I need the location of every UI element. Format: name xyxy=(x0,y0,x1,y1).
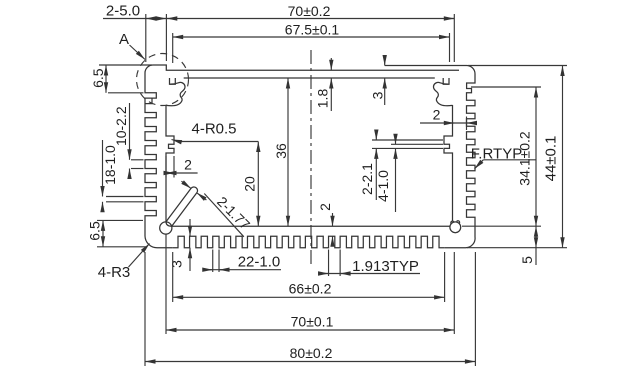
detail circle A (dashed) xyxy=(137,54,189,106)
screw boss bottom-left with diagonal rib xyxy=(160,222,172,234)
dim 2-2.1 xyxy=(375,132,377,140)
dim 70±0.1 xyxy=(166,329,454,331)
dim 36 xyxy=(287,78,289,226)
svg-text:67.5±0.1: 67.5±0.1 xyxy=(285,22,340,38)
dim 5 xyxy=(535,226,537,248)
centerline (dash-dot) xyxy=(310,50,312,268)
svg-text:3: 3 xyxy=(169,260,185,268)
svg-text:2: 2 xyxy=(184,157,192,173)
channel lip top-left xyxy=(170,78,176,84)
svg-text:A: A xyxy=(119,31,129,48)
svg-text:1.8: 1.8 xyxy=(315,89,331,109)
dim 6.5 top-left xyxy=(105,65,107,93)
svg-text:5: 5 xyxy=(519,256,535,264)
svg-text:70±0.1: 70±0.1 xyxy=(291,314,334,330)
dim 66±0.2 xyxy=(173,296,445,298)
dim 18-1.0 xyxy=(102,140,104,197)
screw boss top-right xyxy=(433,82,452,105)
dim 10-2.2 xyxy=(129,103,131,160)
svg-text:2-1.77: 2-1.77 xyxy=(214,193,254,233)
dim 2 (left tab) xyxy=(166,172,174,174)
left wall with fin slots xyxy=(145,73,173,248)
screw boss top-left xyxy=(166,82,185,105)
screw channel hook top-left xyxy=(145,98,152,104)
svg-text:66±0.2: 66±0.2 xyxy=(289,281,332,297)
svg-text:70±0.2: 70±0.2 xyxy=(288,3,331,19)
svg-text:20: 20 xyxy=(242,176,258,192)
svg-text:22-1.0: 22-1.0 xyxy=(238,254,281,271)
right inner wall with PCB tab xyxy=(444,105,453,222)
dim 6.5 bottom-left xyxy=(102,220,104,246)
svg-text:44±0.1: 44±0.1 xyxy=(543,136,560,182)
outer profile outline of extrusion (top wall, right finned wall) xyxy=(145,65,475,248)
dim 2-1.77 (diagonal rib) xyxy=(181,181,191,188)
bottom fin teeth xyxy=(173,236,445,247)
svg-text:34.1±0.2: 34.1±0.2 xyxy=(517,131,533,186)
channel lip top-right xyxy=(443,78,449,84)
svg-text:1.913TYP: 1.913TYP xyxy=(352,258,419,275)
left inner wall with PCB tab xyxy=(166,105,450,226)
screw boss bottom-right xyxy=(450,222,461,233)
svg-text:10-2.2: 10-2.2 xyxy=(113,106,129,146)
svg-text:6.5: 6.5 xyxy=(90,68,106,88)
diagonal rib xyxy=(166,187,197,226)
svg-text:2-2.1: 2-2.1 xyxy=(359,163,375,195)
dim 4-1.0 xyxy=(395,136,397,144)
inner top surface line xyxy=(184,77,435,79)
svg-text:4-R0.5: 4-R0.5 xyxy=(191,121,236,138)
svg-text:6.5: 6.5 xyxy=(87,221,103,241)
svg-text:4-R3: 4-R3 xyxy=(98,264,131,281)
dim 3 (top step) xyxy=(384,56,386,66)
dim 1.913TYP xyxy=(328,250,330,277)
dim 67.5±0.1 xyxy=(173,36,450,38)
svg-text:4-1.0: 4-1.0 xyxy=(375,170,391,202)
svg-text:18-1.0: 18-1.0 xyxy=(102,145,118,185)
dim 2 (bottom wall) xyxy=(332,213,334,226)
svg-text:80±0.2: 80±0.2 xyxy=(290,345,333,361)
dim 22-1.0 xyxy=(212,250,214,273)
svg-text:2: 2 xyxy=(433,107,441,123)
dim 80±0.2 xyxy=(145,361,475,363)
dim 34.1±0.2 xyxy=(535,87,537,226)
dim 2 (top-right fins) xyxy=(420,122,472,124)
svg-text:36: 36 xyxy=(273,143,289,159)
dim 44±0.1 xyxy=(562,66,564,248)
svg-text:2-5.0: 2-5.0 xyxy=(106,3,140,20)
svg-text:3: 3 xyxy=(370,91,386,99)
dim 2-5.0 / 70±0.2 shared line xyxy=(103,18,454,20)
dim 20 xyxy=(257,142,259,227)
dim 1.8 xyxy=(330,58,332,70)
svg-text:2: 2 xyxy=(317,203,333,211)
dim 3 (bottom fins) xyxy=(189,219,191,236)
